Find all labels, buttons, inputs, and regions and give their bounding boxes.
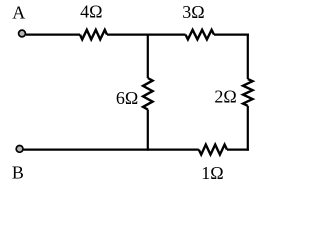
- resistor 3Ω: [186, 30, 215, 40]
- wire: resistor 1Ω to bottom-right corner: [227, 149, 249, 151]
- resistor 1Ω: [199, 145, 227, 155]
- resistor 6Ω: [143, 78, 153, 110]
- wire: terminal A to resistor 4Ω: [26, 33, 80, 35]
- wire: top-right corner down to resistor 2Ω: [247, 34, 249, 80]
- svg-text:6Ω: 6Ω: [116, 88, 138, 108]
- terminal A: [19, 30, 26, 37]
- resistor 4Ω: [80, 30, 107, 40]
- terminal B: [16, 146, 23, 153]
- wire: resistor 3Ω to top-right corner: [214, 33, 249, 35]
- resistor 2Ω: [243, 79, 253, 106]
- svg-text:3Ω: 3Ω: [182, 2, 204, 22]
- svg-text:2Ω: 2Ω: [214, 86, 236, 106]
- svg-text:1Ω: 1Ω: [201, 163, 223, 183]
- wire: top node down to resistor 6Ω: [147, 34, 149, 79]
- wire: resistor 6Ω to bottom node: [147, 110, 149, 151]
- svg-text:B: B: [12, 162, 24, 182]
- svg-text:4Ω: 4Ω: [80, 2, 102, 22]
- wire: resistor 2Ω to bottom-right corner: [247, 106, 249, 151]
- wire: terminal B to resistor 1Ω along bottom: [23, 149, 198, 151]
- svg-text:A: A: [12, 3, 25, 23]
- wire: resistor 4Ω to resistor 3Ω through top node: [107, 33, 186, 35]
